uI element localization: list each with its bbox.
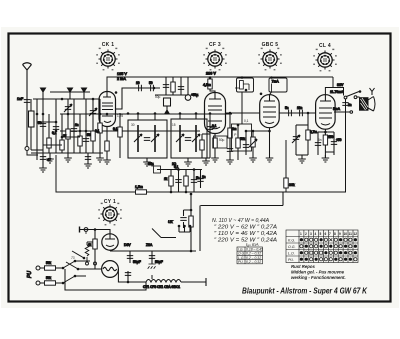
chassis bus wire — [56, 99, 346, 193]
detector enclosure box — [232, 124, 252, 151]
ground stub with capacitor 47 — [42, 153, 44, 168]
RC pair beside fuse — [184, 210, 192, 216]
T2 primary winding — [179, 125, 181, 152]
resistor R1 — [47, 138, 51, 148]
wire connect — [318, 131, 325, 133]
switch position table — [286, 230, 358, 263]
node dot bus-T1 — [127, 112, 130, 115]
T1 secondary winding — [154, 125, 156, 152]
terminal lug 2 — [94, 262, 97, 265]
capacitor C30 — [317, 132, 319, 155]
svg-text:2 mA: 2 mA — [117, 77, 126, 81]
ground left — [36, 153, 38, 160]
wire V1 cathode — [106, 127, 108, 161]
svg-text:150: 150 — [328, 135, 334, 139]
mains fuse riser — [190, 194, 192, 251]
trimmer C6 — [92, 99, 94, 153]
loudspeaker horn — [368, 97, 375, 112]
ground V2 — [211, 155, 219, 162]
svg-text:werking - Fonctionnement.: werking - Fonctionnement. — [291, 275, 346, 280]
capacitor C2 — [40, 124, 46, 127]
svg-text:K.G.: K.G. — [288, 239, 295, 243]
resistor R41 — [185, 170, 187, 193]
feed box 5u — [154, 166, 161, 173]
output switch — [344, 96, 347, 99]
wire vertical x37 — [36, 99, 38, 153]
wire K2 to GBC5 top — [270, 92, 272, 95]
svg-text:73: 73 — [71, 256, 75, 260]
resistor inside K1 — [240, 81, 244, 90]
svg-text:CY1 CF3 CK1 CBA GBC1: CY1 CF3 CK1 CBA GBC1 — [143, 285, 180, 289]
switch wafer 1 — [63, 261, 75, 268]
svg-text:1m: 1m — [232, 127, 237, 131]
wire upper rail — [50, 91, 90, 93]
svg-text:5n: 5n — [285, 106, 289, 110]
node dot bus gbc5 — [245, 130, 248, 133]
svg-text:O.G.: O.G. — [288, 245, 296, 249]
rectifier output wire — [109, 249, 111, 252]
node — [229, 112, 232, 115]
decoupling rail — [157, 169, 202, 171]
svg-text:47: 47 — [47, 158, 51, 162]
wire h gbc5 — [246, 130, 270, 132]
svg-text:+50: +50 — [336, 138, 342, 142]
wire GBC5 cathode — [269, 128, 271, 158]
antenna coil L1 — [30, 99, 32, 111]
svg-text:1k: 1k — [164, 177, 168, 181]
capacitor C42 — [200, 170, 202, 189]
resistor R5 — [91, 131, 95, 141]
svg-text:88V: 88V — [337, 83, 344, 87]
tube socket GBC5 (top view) — [258, 48, 282, 71]
small box — [164, 98, 171, 106]
screen dropper capacitor — [165, 77, 167, 95]
svg-text:5n: 5n — [318, 138, 322, 142]
node dots — [170, 191, 173, 194]
svg-text:185 V: 185 V — [117, 72, 127, 76]
tube V5 CY1 envelope — [102, 234, 118, 250]
svg-text:10: 10 — [136, 81, 140, 85]
resistor R2 — [60, 140, 64, 150]
tie rail — [155, 94, 188, 96]
trimmer C4 — [67, 99, 69, 153]
svg-text:50k: 50k — [46, 276, 52, 280]
resistor R40 — [170, 170, 172, 193]
V2 grid dropper — [209, 113, 211, 158]
tube V3 GBC5 envelope — [260, 95, 280, 128]
resistor R3 — [66, 129, 70, 139]
svg-text:UK: UK — [168, 220, 173, 224]
node dots on buses — [42, 113, 45, 116]
PU series resistor 1 — [40, 267, 63, 269]
svg-text:11.70mA: 11.70mA — [330, 90, 344, 94]
svg-text:15: 15 — [172, 123, 176, 127]
wire antenna to coil block — [27, 151, 38, 155]
svg-text:CL 4: CL 4 — [319, 43, 331, 49]
ballast lamp envelope — [102, 261, 119, 278]
grid cap wire — [116, 88, 161, 109]
svg-text:12: 12 — [354, 232, 358, 236]
PU series resistor 2 — [40, 282, 63, 284]
heater return wire — [65, 269, 146, 290]
smoothing rail riser to HT step — [200, 192, 283, 251]
node V1 anode — [115, 91, 118, 94]
svg-text:PU: PU — [27, 271, 33, 278]
svg-text:+50µ: +50µ — [191, 93, 198, 97]
svg-text:50: 50 — [87, 133, 91, 137]
wire lamp right to heater chain — [118, 269, 146, 282]
wire tap step — [87, 242, 95, 262]
svg-text:50µ: 50µ — [219, 138, 225, 142]
coil L1 tap wire — [31, 149, 43, 151]
ground CL4 — [322, 155, 330, 162]
ground tone — [296, 154, 308, 156]
svg-text:7: 7 — [329, 232, 331, 236]
wire lamp left — [78, 268, 102, 270]
tie wire a — [37, 121, 56, 123]
phone jack terminal — [79, 227, 81, 233]
capacitor C25 — [245, 131, 247, 155]
connector arrow 1 — [41, 88, 46, 92]
wire V2 cathode — [214, 134, 216, 159]
svg-text:GBC 5: GBC 5 — [262, 42, 279, 48]
ground pot — [249, 155, 257, 162]
svg-text:4,5m: 4,5m — [203, 83, 211, 87]
node dot bus left — [106, 113, 109, 116]
riser with resistor 30k — [285, 140, 287, 192]
svg-text:N. 110 V ~ 47 W ≈ 0,44A: N. 110 V ~ 47 W ≈ 0,44A — [212, 218, 270, 224]
IF can T1 — [128, 120, 167, 158]
svg-text:30k: 30k — [289, 183, 295, 187]
svg-text:″ 110 V = 46 W ″ 0,42A: ″ 110 V = 46 W ″ 0,42A — [214, 231, 278, 237]
surge resistor — [94, 230, 96, 262]
svg-text:50: 50 — [38, 121, 42, 125]
cathode resistor V1 — [105, 141, 109, 151]
antenna coupling capacitor — [24, 100, 30, 103]
speaker antenna mark — [370, 88, 375, 95]
ground x50 — [49, 153, 51, 159]
svg-text:Rust Repos: Rust Repos — [291, 264, 315, 269]
svg-text:0,2 – 0,32: 0,2 – 0,32 — [246, 260, 261, 264]
capacitor C40 — [178, 170, 180, 193]
svg-text:30: 30 — [131, 123, 135, 127]
svg-text:0,1: 0,1 — [244, 119, 249, 123]
svg-text:″ 220 V ~ 62 W ″ 0,27A: ″ 220 V ~ 62 W ″ 0,27A — [214, 225, 278, 231]
bottom rail of input block — [31, 152, 103, 154]
svg-text:8: 8 — [334, 232, 336, 236]
wire h cl4 — [325, 132, 334, 152]
svg-text:11: 11 — [349, 232, 353, 236]
svg-text:5n: 5n — [196, 176, 200, 180]
svg-text:6: 6 — [325, 232, 327, 236]
output transformer — [360, 98, 369, 111]
terminal lug 1 — [86, 262, 89, 265]
svg-text:5µ: 5µ — [150, 162, 154, 166]
anode tap wire — [334, 111, 350, 113]
svg-text:5: 5 — [320, 232, 322, 236]
wires can tops to bus — [138, 113, 196, 120]
capacitor C41 — [193, 170, 195, 193]
grid resistor CL4 — [307, 113, 309, 155]
svg-text:PU.: PU. — [288, 258, 294, 262]
ground GBC5 — [266, 155, 274, 162]
svg-text:5mA: 5mA — [333, 107, 341, 111]
tube socket CF3 (top view) — [203, 48, 227, 71]
wire h — [226, 112, 260, 114]
CL4 anode wire — [325, 88, 343, 96]
node — [94, 228, 97, 231]
svg-text:280 V: 280 V — [206, 72, 216, 76]
resistor 1.5m on bus — [136, 190, 147, 194]
PU terminal 1 — [36, 266, 40, 270]
voltage selector taps — [178, 225, 181, 228]
svg-text:0,1: 0,1 — [113, 127, 118, 131]
svg-text:1n: 1n — [202, 175, 206, 179]
svg-text:10n: 10n — [297, 106, 303, 110]
chain tap bar — [151, 275, 153, 279]
svg-text:7mA: 7mA — [272, 80, 280, 84]
screening can K2 — [269, 78, 287, 92]
tie wire b — [62, 136, 80, 138]
electrolytic capacitor 50uF (2) — [151, 251, 153, 263]
node — [36, 113, 39, 116]
svg-text:0,1: 0,1 — [52, 131, 57, 135]
svg-text:50: 50 — [149, 81, 153, 85]
tube socket CL4 (top view) — [313, 49, 337, 72]
connector arrow 2 — [68, 88, 73, 92]
T1 cap — [144, 138, 150, 141]
AVC bus wire — [60, 130, 200, 132]
antenna — [23, 63, 32, 146]
PU terminal 2 — [36, 281, 40, 285]
antenna terminal — [25, 147, 29, 151]
grounds under cans — [146, 158, 148, 162]
wire K1 to detector box — [241, 92, 243, 124]
svg-text:Z8A: Z8A — [146, 243, 153, 247]
tube socket CK1 (top view) — [96, 48, 120, 71]
capacitor C5 — [85, 99, 87, 153]
electrolytic capacitor 50uF — [129, 251, 131, 263]
svg-text:50µF: 50µF — [155, 260, 163, 264]
resistor R20 — [229, 114, 231, 160]
bypass capacitor — [180, 77, 182, 95]
mains switch contact 2 — [72, 251, 84, 258]
coupling capacitor to CL4 — [279, 112, 315, 114]
resistor R4 — [78, 136, 82, 146]
cathode resistor CL4 — [323, 135, 327, 145]
cathode electrolytic box V2 — [214, 136, 228, 148]
ground mid — [67, 153, 69, 158]
mains switch contact 1 — [66, 262, 78, 269]
resistor R6 — [99, 99, 101, 153]
T2 cap — [185, 138, 191, 141]
dropper resistor x120 — [119, 113, 121, 158]
electrolytic 50u — [187, 77, 189, 95]
wire vertical x56 — [55, 99, 57, 153]
svg-text:Blaupunkt - Allstrom - Super 4: Blaupunkt - Allstrom - Super 4 GW 67 K — [242, 286, 368, 296]
wire CL4 cathode — [324, 129, 326, 158]
svg-text:9: 9 — [339, 232, 341, 236]
svg-text:0,1: 0,1 — [212, 124, 217, 128]
screen dropper resistor — [172, 77, 174, 95]
current table — [237, 247, 263, 264]
switch link — [95, 262, 102, 269]
screening can K1 — [237, 78, 254, 92]
volume potentiometer — [252, 131, 254, 158]
tube V1 CK1 envelope — [99, 92, 116, 127]
switch common wire — [75, 261, 90, 276]
svg-text:1n: 1n — [75, 123, 79, 127]
svg-text:0,7m: 0,7m — [310, 130, 317, 134]
cathode resistor V2 — [213, 138, 217, 148]
svg-text:PU.: PU. — [238, 260, 244, 264]
capacitor C11 — [151, 85, 154, 91]
svg-text:1,5m: 1,5m — [135, 185, 143, 189]
resistor R21 — [237, 125, 239, 160]
ground V2 grid — [205, 158, 207, 161]
top HT bus wire — [107, 77, 333, 92]
svg-text:4: 4 — [315, 232, 317, 236]
trimmer tone — [295, 125, 297, 155]
table contact marks — [300, 238, 357, 261]
svg-text:0,1: 0,1 — [95, 129, 100, 133]
capacitor C20 — [227, 149, 233, 152]
svg-text:2: 2 — [305, 232, 307, 236]
svg-text:2k: 2k — [63, 134, 67, 138]
wire vertical x43 — [42, 99, 44, 153]
electrolytic bypass — [333, 132, 335, 155]
svg-text:3: 3 — [310, 232, 312, 236]
border frame — [9, 34, 391, 302]
svg-text:50k: 50k — [240, 137, 246, 141]
capacitor 2n on riser — [342, 103, 348, 106]
selector lever — [152, 229, 176, 238]
capacitor C3 — [53, 127, 59, 130]
tube V2 CF3 envelope — [205, 93, 226, 134]
heater chain choke — [146, 280, 181, 283]
wire vertical x74 — [73, 99, 75, 153]
svg-text:L.O.: L.O. — [288, 252, 295, 256]
wire h tone — [296, 124, 308, 126]
screen feed resistor 4.5m — [209, 77, 211, 79]
switch wafer 2 — [63, 276, 75, 283]
smoothing rail — [110, 250, 196, 252]
arrow down node — [165, 110, 170, 114]
node dots — [137, 112, 140, 115]
fuse — [189, 216, 193, 227]
svg-text:1k: 1k — [88, 243, 92, 247]
IF can T2 — [171, 119, 207, 158]
svg-text:1nF: 1nF — [17, 97, 24, 101]
tube V4 CL4 envelope — [316, 95, 336, 130]
T1 primary winding — [137, 125, 139, 152]
mains input rail — [80, 230, 110, 234]
dropper with capacitor and ground — [87, 153, 89, 164]
svg-text:Iₐₙ mA: Iₐₙ mA — [246, 242, 259, 247]
svg-text:1,25: 1,25 — [117, 114, 123, 118]
svg-text:CY 1: CY 1 — [104, 199, 116, 205]
ground under C bank — [151, 262, 153, 265]
wire top rail of input block — [33, 98, 100, 100]
svg-text:10: 10 — [344, 232, 348, 236]
svg-text:D8V: D8V — [124, 243, 131, 247]
tie wire c — [43, 144, 62, 146]
svg-text:2n: 2n — [348, 103, 352, 107]
ground V1 — [103, 157, 111, 164]
svg-text:50µ: 50µ — [155, 95, 161, 99]
heater chain to end — [181, 278, 206, 286]
svg-text:1: 1 — [300, 232, 302, 236]
connector arrow 3 — [82, 88, 87, 92]
ground right — [99, 153, 101, 158]
svg-text:CF 3: CF 3 — [209, 42, 221, 48]
grid resistor V2 — [201, 134, 203, 158]
T2 secondary winding — [195, 125, 197, 152]
svg-text:CK 1: CK 1 — [102, 42, 115, 48]
main grid bus wire — [60, 113, 232, 115]
svg-text:50k: 50k — [46, 261, 52, 265]
lamp tap capacitor — [127, 271, 129, 282]
tube socket CY1 (top view) — [98, 203, 122, 226]
svg-text:50µF: 50µF — [133, 260, 141, 264]
ground — [226, 157, 234, 164]
svg-text:Midden gol. - Pas mouvne: Midden gol. - Pas mouvne — [291, 270, 345, 275]
capacitor C10 — [139, 85, 142, 91]
dropper resistor zigzag — [85, 245, 89, 256]
